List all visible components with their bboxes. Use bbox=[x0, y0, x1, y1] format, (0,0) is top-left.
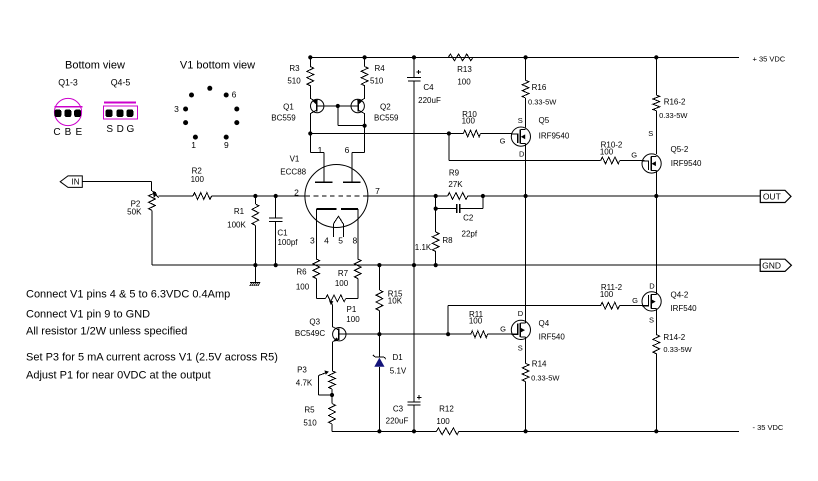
svg-text:D: D bbox=[649, 281, 655, 290]
svg-text:S: S bbox=[518, 116, 523, 125]
svg-text:Adjust P1 for near 0VDC at the: Adjust P1 for near 0VDC at the output bbox=[26, 370, 211, 382]
node C2/R8 bbox=[434, 207, 438, 211]
svg-text:510: 510 bbox=[287, 77, 301, 86]
svg-text:1: 1 bbox=[318, 145, 323, 155]
tube V1 cathode (pin 8) bbox=[341, 209, 358, 259]
node +35/C4 bbox=[412, 55, 416, 59]
svg-text:Q1-3: Q1-3 bbox=[58, 77, 78, 87]
svg-text:100: 100 bbox=[600, 147, 614, 156]
potentiometer P3 bbox=[296, 365, 336, 395]
wire R10-2 to Q5-2 gate bbox=[620, 159, 645, 162]
wire P3 wiper to bottom bbox=[318, 394, 332, 396]
GND rail wire bbox=[152, 264, 760, 266]
pin label 5 bbox=[338, 235, 343, 245]
resistor R9 bbox=[436, 169, 483, 200]
svg-text:5.1V: 5.1V bbox=[390, 366, 407, 375]
resistor R12 bbox=[436, 405, 459, 435]
ground symbol bbox=[250, 265, 260, 286]
svg-text:10K: 10K bbox=[388, 297, 403, 306]
node P3 bottom bbox=[330, 393, 334, 397]
wire Q2 collector down to plate bbox=[364, 114, 366, 153]
svg-text:3: 3 bbox=[174, 104, 179, 114]
svg-text:Set P3 for 5 mA current across: Set P3 for 5 mA current across V1 (2.5V … bbox=[26, 351, 278, 363]
svg-text:IRF540: IRF540 bbox=[539, 332, 566, 341]
capacitor C3 bbox=[386, 265, 422, 431]
svg-text:IRF9540: IRF9540 bbox=[539, 132, 570, 141]
node -35/C3 bbox=[412, 429, 416, 433]
svg-text:220uF: 220uF bbox=[418, 96, 441, 105]
svg-text:5: 5 bbox=[338, 235, 343, 245]
OUT rail wire bbox=[483, 195, 760, 197]
node R1 top bbox=[253, 194, 257, 198]
svg-text:GND: GND bbox=[762, 260, 781, 270]
svg-text:Bottom view: Bottom view bbox=[65, 60, 125, 72]
socket pin number 6 bbox=[232, 90, 237, 100]
transistor Q4-2 IRF540 bbox=[632, 281, 697, 324]
pin label 6 bbox=[345, 145, 350, 155]
wire R10 to Q5 gate bbox=[481, 133, 512, 136]
svg-text:C1: C1 bbox=[277, 229, 288, 238]
svg-text:R13: R13 bbox=[457, 65, 472, 74]
wire Q5 drain to OUT rail bbox=[525, 144, 527, 196]
resistor R1 bbox=[227, 196, 259, 265]
net label - 35 VDC bbox=[753, 423, 784, 432]
node Q2 collector bbox=[363, 124, 367, 128]
svg-text:R7: R7 bbox=[338, 269, 349, 278]
wire gate feed up to R11-2 bbox=[448, 306, 600, 335]
wire R11 to Q4 gate bbox=[488, 333, 512, 335]
svg-text:0.33-5W: 0.33-5W bbox=[663, 345, 692, 354]
svg-text:R5: R5 bbox=[304, 406, 315, 415]
svg-text:100K: 100K bbox=[227, 221, 246, 230]
svg-text:BC559: BC559 bbox=[271, 114, 296, 123]
svg-text:R14-2: R14-2 bbox=[663, 333, 685, 342]
svg-text:Q4: Q4 bbox=[539, 319, 550, 328]
wire Q5-2 drain to OUT rail bbox=[655, 171, 657, 197]
node +35/R4 bbox=[363, 55, 367, 59]
svg-text:IRF540: IRF540 bbox=[670, 304, 697, 313]
svg-text:0.33-5W: 0.33-5W bbox=[528, 98, 557, 107]
resistor R16 bbox=[522, 57, 557, 127]
svg-text:G: G bbox=[500, 324, 506, 333]
node GND/C1 bbox=[274, 263, 278, 267]
wire OUT rail to Q4 drain bbox=[525, 196, 527, 323]
IN connector bbox=[60, 176, 82, 188]
capacitor C4 bbox=[407, 57, 441, 265]
note line 3 bbox=[26, 326, 187, 338]
pin labels S D G bbox=[106, 124, 134, 135]
node R15/D1 bbox=[377, 332, 381, 336]
svg-text:BC559: BC559 bbox=[374, 114, 399, 123]
svg-text:1.1K: 1.1K bbox=[415, 243, 432, 252]
svg-text:E: E bbox=[75, 127, 82, 138]
resistor R6 bbox=[296, 259, 320, 298]
svg-text:4.7K: 4.7K bbox=[296, 378, 313, 387]
svg-text:1: 1 bbox=[191, 140, 196, 150]
pin label 1 bbox=[318, 145, 323, 155]
potentiometer P2 bbox=[127, 191, 158, 217]
svg-text:P1: P1 bbox=[347, 305, 357, 314]
svg-text:Q5-2: Q5-2 bbox=[671, 145, 689, 154]
svg-text:Q5: Q5 bbox=[539, 116, 550, 125]
wire Q1 collector to R10 bbox=[310, 133, 463, 135]
pin label 4 bbox=[324, 235, 329, 245]
svg-text:7: 7 bbox=[375, 186, 380, 196]
resistor R14-2 bbox=[653, 308, 693, 431]
node -35/D1 bbox=[377, 429, 381, 433]
svg-text:D: D bbox=[519, 149, 525, 158]
transistor Q4 IRF540 bbox=[500, 309, 565, 352]
resistor R8 bbox=[415, 209, 453, 266]
svg-text:All resistor 1/2W unless speci: All resistor 1/2W unless specified bbox=[26, 326, 187, 338]
svg-text:220uF: 220uF bbox=[386, 416, 409, 425]
svg-text:ECC88: ECC88 bbox=[280, 168, 306, 177]
svg-text:R12: R12 bbox=[439, 405, 454, 414]
svg-text:2: 2 bbox=[294, 187, 299, 197]
node OUT/Q5-2-Q4-2 drains bbox=[654, 194, 658, 198]
svg-text:6: 6 bbox=[232, 90, 237, 100]
svg-text:0.33-5W: 0.33-5W bbox=[531, 373, 560, 382]
svg-text:V1: V1 bbox=[290, 154, 300, 163]
svg-text:9: 9 bbox=[224, 140, 229, 150]
svg-text:S: S bbox=[106, 124, 113, 135]
resistor R11-2 bbox=[600, 283, 623, 309]
note line 5 bbox=[26, 370, 211, 382]
socket pin number 1 bbox=[191, 140, 196, 150]
wire bases to Q2 collector bbox=[338, 106, 365, 126]
+35V rail wire bbox=[310, 56, 739, 58]
resistor R14 bbox=[522, 337, 560, 431]
TO-220 package bottom view (Q4-5) bbox=[103, 103, 137, 119]
svg-text:Q4-5: Q4-5 bbox=[111, 77, 131, 87]
svg-text:S: S bbox=[649, 316, 654, 325]
svg-text:Q3: Q3 bbox=[309, 317, 320, 326]
node R10/gate feed bbox=[447, 131, 451, 135]
node +35/R16-2 bbox=[654, 55, 658, 59]
svg-text:100: 100 bbox=[191, 175, 205, 184]
pin label 7 bbox=[375, 186, 380, 196]
resistor R10 bbox=[462, 110, 481, 137]
svg-text:R6: R6 bbox=[296, 268, 307, 277]
legend title "Bottom view" bbox=[65, 60, 125, 72]
svg-text:22pf: 22pf bbox=[462, 230, 478, 239]
svg-text:IN: IN bbox=[72, 178, 80, 187]
resistor R7 bbox=[335, 259, 361, 298]
svg-text:D1: D1 bbox=[392, 353, 403, 362]
svg-text:C3: C3 bbox=[393, 405, 404, 414]
svg-text:100: 100 bbox=[296, 283, 310, 292]
svg-text:OUT: OUT bbox=[763, 191, 781, 201]
capacitor C2 bbox=[436, 196, 483, 239]
transistor Q5-2 IRF9540 bbox=[631, 129, 702, 173]
svg-text:100: 100 bbox=[346, 315, 360, 324]
svg-text:- 35 VDC: - 35 VDC bbox=[753, 423, 784, 432]
pin label 3 bbox=[310, 235, 315, 245]
svg-text:R3: R3 bbox=[289, 64, 300, 73]
tube V1 plate (pin 6) bbox=[343, 153, 365, 183]
legend label Q1-3 bbox=[58, 77, 78, 87]
wire Q1 collector down to plate bbox=[309, 114, 311, 153]
tube V1 heater (pins 4,5) bbox=[333, 216, 343, 237]
resistor R10-2 bbox=[600, 140, 623, 164]
svg-text:R4: R4 bbox=[375, 64, 386, 73]
node R9/C2 right bbox=[481, 194, 485, 198]
resistor R16-2 bbox=[653, 57, 688, 154]
legend label Q4-5 bbox=[111, 77, 131, 87]
svg-text:100: 100 bbox=[335, 279, 349, 288]
svg-text:R16: R16 bbox=[532, 83, 547, 92]
svg-text:100: 100 bbox=[457, 78, 471, 87]
resistor R3 bbox=[287, 57, 313, 99]
transistor Q5 IRF9540 bbox=[500, 116, 570, 158]
wire tube pin7 to feedback node bbox=[368, 195, 436, 197]
svg-text:D: D bbox=[518, 309, 524, 318]
note line 2 bbox=[26, 308, 150, 320]
-35V rail wire bbox=[332, 430, 739, 432]
svg-text:R14: R14 bbox=[532, 359, 547, 368]
svg-text:100: 100 bbox=[600, 290, 614, 299]
svg-text:R1: R1 bbox=[234, 207, 245, 216]
note line 1 bbox=[26, 289, 230, 301]
svg-text:510: 510 bbox=[370, 77, 384, 86]
socket pin number 9 bbox=[224, 140, 229, 150]
svg-text:D: D bbox=[117, 124, 124, 135]
svg-text:100: 100 bbox=[462, 117, 476, 126]
svg-text:C: C bbox=[53, 127, 60, 138]
svg-text:100: 100 bbox=[469, 317, 483, 326]
wire R2 to tube grid bbox=[212, 195, 305, 197]
note line 4 bbox=[26, 351, 278, 363]
legend title "V1 bottom view" bbox=[180, 60, 255, 72]
svg-text:S: S bbox=[518, 343, 523, 352]
resistor R5 bbox=[303, 389, 335, 431]
svg-text:50K: 50K bbox=[127, 208, 142, 217]
svg-text:100pf: 100pf bbox=[277, 238, 298, 247]
node GND/R15 bbox=[377, 263, 381, 267]
svg-text:G: G bbox=[500, 137, 506, 146]
svg-text:G: G bbox=[127, 124, 135, 135]
socket pin number 3 bbox=[174, 104, 179, 114]
wire P1 wiper to Q3 collector bbox=[331, 305, 333, 328]
node GND/C4-C3 bbox=[412, 263, 416, 267]
svg-text:Q4-2: Q4-2 bbox=[671, 291, 689, 300]
svg-text:R8: R8 bbox=[442, 236, 453, 245]
svg-text:G: G bbox=[632, 296, 638, 305]
svg-text:100: 100 bbox=[436, 417, 450, 426]
svg-text:C4: C4 bbox=[423, 83, 434, 92]
node Q1-Q2 bases bbox=[336, 104, 340, 108]
resistor R11 bbox=[448, 310, 488, 338]
node +35/R3 bbox=[308, 55, 312, 59]
wire R11-2 to Q4-2 gate bbox=[620, 305, 645, 307]
svg-text:G: G bbox=[631, 151, 637, 160]
svg-text:Connect V1 pins 4 & 5 to 6.3V: Connect V1 pins 4 & 5 to 6.3VDC 0.4Amp bbox=[26, 289, 230, 301]
OUT connector bbox=[760, 190, 791, 202]
node OUT/Q5-Q4 drains bbox=[524, 194, 528, 198]
tube V1 ECC88 envelope bbox=[280, 154, 368, 227]
pin labels C B E bbox=[53, 127, 82, 138]
svg-text:R9: R9 bbox=[449, 169, 460, 178]
transistor Q2 BC559 bbox=[338, 98, 399, 122]
wire Q3 emitter to P3 bbox=[331, 342, 333, 371]
wire P2 bottom to GND rail bbox=[151, 210, 153, 265]
transistor Q3 BC549C bbox=[295, 317, 380, 341]
node GND/R8 bbox=[434, 263, 438, 267]
svg-text:+ 35 VDC: + 35 VDC bbox=[753, 54, 786, 63]
svg-text:P3: P3 bbox=[297, 365, 307, 374]
resistor R13 bbox=[448, 54, 473, 87]
svg-text:Q2: Q2 bbox=[380, 103, 391, 112]
zener diode D1 5.1V bbox=[373, 334, 407, 431]
potentiometer P1 bbox=[316, 295, 360, 324]
svg-text:0.33-5W: 0.33-5W bbox=[659, 111, 688, 120]
svg-text:4: 4 bbox=[324, 235, 329, 245]
node -35/R14-2 bbox=[654, 429, 658, 433]
svg-text:BC549C: BC549C bbox=[295, 329, 325, 338]
capacitor C1 bbox=[269, 196, 298, 265]
wire IN to P2 bbox=[82, 182, 151, 191]
svg-text:6: 6 bbox=[345, 145, 350, 155]
tube V1 plate (pin 1) bbox=[310, 153, 332, 183]
tube V1 cathode (pin 3) bbox=[316, 209, 336, 259]
resistor R2 bbox=[191, 167, 212, 200]
svg-text:510: 510 bbox=[303, 419, 317, 428]
resistor R15 bbox=[376, 265, 403, 334]
resistor R4 bbox=[361, 57, 385, 99]
wire gate feed to Q5-2 branch bbox=[449, 134, 601, 161]
svg-text:S: S bbox=[648, 129, 653, 138]
wire P2 wiper to R2 bbox=[159, 195, 193, 197]
tube V1 grid dashed line bbox=[306, 195, 368, 197]
svg-text:Q1: Q1 bbox=[283, 103, 294, 112]
TO-92 package bottom view (Q1-3) bbox=[54, 98, 82, 125]
node grid2/feedback bbox=[434, 194, 438, 198]
svg-text:C2: C2 bbox=[463, 214, 474, 223]
wire Q3 base line to R11 node bbox=[379, 333, 448, 335]
transistor Q1 BC559 bbox=[271, 98, 338, 122]
GND connector bbox=[760, 259, 791, 271]
svg-text:IRF9540: IRF9540 bbox=[671, 159, 702, 168]
svg-text:27K: 27K bbox=[448, 180, 463, 189]
node GND/R1 bbox=[253, 263, 257, 267]
svg-text:R16-2: R16-2 bbox=[664, 98, 686, 107]
node Q1 collector / drive bbox=[308, 131, 312, 135]
pin label 8 bbox=[353, 235, 358, 245]
pin label 2 bbox=[294, 187, 299, 197]
svg-text:8: 8 bbox=[353, 235, 358, 245]
svg-text:3: 3 bbox=[310, 235, 315, 245]
node R11/gate feed bbox=[446, 332, 450, 336]
V1 socket pins (9-pin) bbox=[183, 86, 239, 140]
node +35/R16 bbox=[524, 55, 528, 59]
net label + 35 VDC bbox=[753, 54, 786, 63]
node C1 top bbox=[274, 194, 278, 198]
svg-text:B: B bbox=[65, 127, 72, 138]
svg-text:V1 bottom view: V1 bottom view bbox=[180, 60, 255, 72]
wire OUT rail to Q4-2 drain bbox=[655, 196, 657, 294]
svg-text:Connect V1 pin 9 to GND: Connect V1 pin 9 to GND bbox=[26, 308, 150, 320]
node -35/R14 bbox=[524, 429, 528, 433]
